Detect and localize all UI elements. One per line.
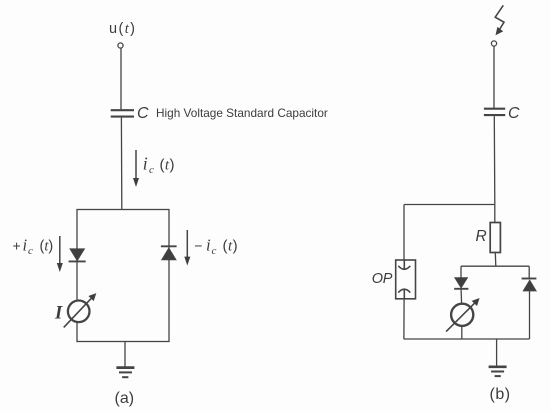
- svg-text:(t): (t): [160, 157, 175, 174]
- svg-text:+: +: [13, 238, 21, 254]
- value label C: [508, 105, 520, 122]
- svg-text:i: i: [143, 154, 148, 174]
- wire (branch to OP): [404, 204, 495, 206]
- ground (a): [116, 368, 134, 378]
- wire (bottom bus b): [404, 338, 530, 340]
- wire: [403, 205, 405, 261]
- svg-text:c: c: [212, 245, 217, 257]
- value label C: [137, 105, 149, 122]
- diode D2 (right branch, conducts up): [161, 246, 177, 259]
- wire (ground stub a): [124, 342, 126, 367]
- wire: [460, 266, 462, 278]
- svg-text:(t): (t): [223, 238, 239, 255]
- terminal node (a): [118, 43, 123, 48]
- wire: [461, 326, 463, 339]
- wire: [494, 253, 497, 267]
- wire (branch bus): [461, 265, 529, 267]
- meter I (moving-coil instrument, adjustable): [64, 293, 97, 327]
- arrow -ic(t): [184, 230, 190, 266]
- capacitor C (b): [484, 109, 505, 115]
- diode D3 (left branch b, conducts down): [454, 278, 468, 289]
- svg-text:c: c: [28, 245, 33, 257]
- svg-text:I: I: [54, 304, 63, 324]
- svg-text:c: c: [149, 164, 154, 176]
- wire: [529, 291, 531, 339]
- svg-text:C: C: [137, 105, 149, 122]
- diode D1 (left branch, conducts down): [69, 249, 86, 262]
- svg-text:C: C: [508, 105, 520, 122]
- wire: [493, 46, 495, 108]
- svg-text:u(t): u(t): [109, 21, 136, 37]
- label +ic(t): [13, 236, 54, 258]
- rectifier loop box (a): [77, 210, 169, 342]
- wire: [120, 48, 122, 109]
- svg-text:High Voltage Standard Capacito: High Voltage Standard Capacitor: [156, 106, 328, 120]
- surge arrester OP (spark gap): [396, 260, 416, 299]
- wire: [460, 290, 463, 304]
- current arrow ic(t): [133, 150, 139, 187]
- caption (a): [115, 390, 135, 407]
- svg-text:−: −: [194, 238, 202, 254]
- wire: [528, 266, 530, 278]
- svg-text:R: R: [476, 228, 487, 245]
- svg-text:i: i: [206, 236, 211, 255]
- svg-text:(a): (a): [115, 390, 135, 407]
- ground (b): [489, 367, 507, 376]
- wire (OP to bottom bus): [403, 299, 405, 339]
- svg-text:OP: OP: [372, 271, 393, 287]
- label -ic(t): [194, 236, 238, 258]
- label R: [476, 228, 487, 245]
- svg-text:i: i: [23, 236, 28, 255]
- terminal node (b): [491, 41, 496, 46]
- node u(t) label: [109, 21, 136, 37]
- wire (ground stub b): [496, 339, 498, 366]
- arrow +ic(t): [57, 236, 63, 272]
- annotation: High Voltage Standard Capacitor: [156, 106, 328, 120]
- capacitor C (a): [111, 110, 134, 116]
- caption (b): [490, 386, 511, 403]
- wire: [120, 118, 122, 210]
- lightning impulse symbol: [495, 5, 504, 35]
- wire: [493, 116, 496, 204]
- meter (moving-coil instrument, adjustable): [446, 298, 480, 332]
- svg-text:(b): (b): [490, 386, 511, 403]
- svg-text:(t): (t): [40, 239, 54, 255]
- diode D4 (right branch b, conducts up): [522, 279, 537, 291]
- label I: [54, 304, 63, 324]
- label ic(t): [143, 154, 175, 177]
- label OP: [372, 271, 393, 287]
- resistor R: [490, 223, 500, 253]
- wire: [494, 205, 496, 223]
